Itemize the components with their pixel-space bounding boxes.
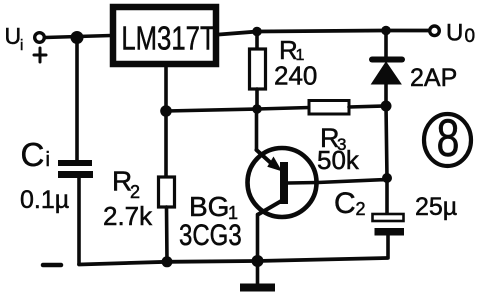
svg-text:2: 2 <box>356 199 366 219</box>
svg-text:3CG3: 3CG3 <box>179 217 242 251</box>
svg-text:2.7k: 2.7k <box>103 201 153 231</box>
svg-text:2: 2 <box>130 182 140 202</box>
svg-text:i: i <box>20 37 23 54</box>
svg-text:8: 8 <box>437 109 460 168</box>
svg-text:C: C <box>21 136 45 173</box>
svg-text:i: i <box>46 149 50 171</box>
svg-text:U: U <box>446 20 463 47</box>
svg-text:240: 240 <box>274 61 317 91</box>
svg-text:0: 0 <box>465 26 476 47</box>
svg-text:C: C <box>334 187 356 220</box>
svg-text:LM317T: LM317T <box>121 21 215 58</box>
svg-text:2AP: 2AP <box>410 64 457 92</box>
svg-text:0.1µ: 0.1µ <box>20 186 69 214</box>
svg-text:25µ: 25µ <box>415 193 457 221</box>
svg-text:U: U <box>5 23 22 49</box>
svg-text:50k: 50k <box>317 145 360 175</box>
